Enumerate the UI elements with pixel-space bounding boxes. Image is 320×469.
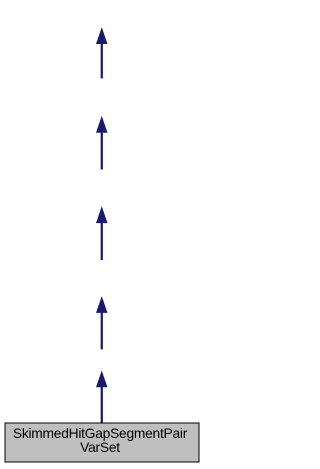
arrow 5 (edge into SkimmedHitGapSegmentPairVarSet) <box>96 371 108 424</box>
node label line 1 <box>3 427 197 455</box>
arrow 2 <box>96 116 108 170</box>
arrow 3 <box>96 206 108 260</box>
arrow 1 (topmost inheritance edge) <box>96 27 108 78</box>
arrow 4 <box>96 296 108 349</box>
node box: SkimmedHitGapSegmentPairVarSet (current class, grey fill) <box>5 423 199 462</box>
inheritance diagram: SkimmedHitGapSegmentPairVarSet <box>0 0 204 469</box>
